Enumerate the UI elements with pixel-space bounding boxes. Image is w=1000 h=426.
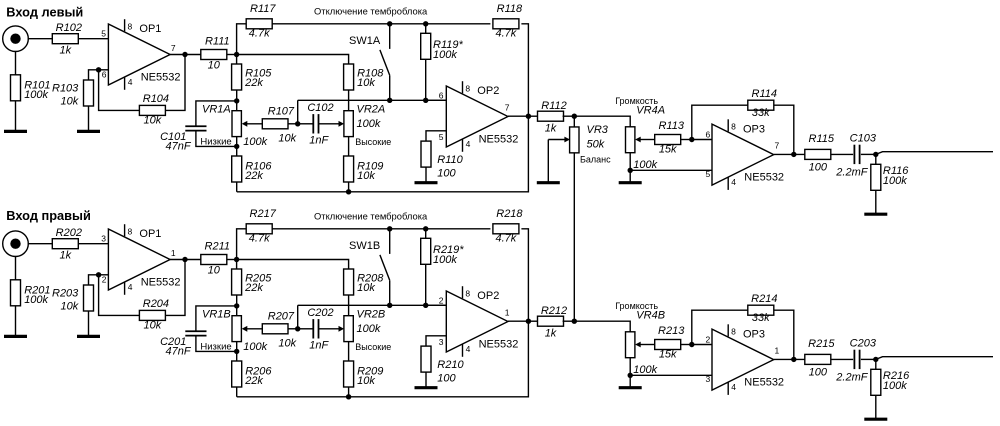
- resistor R214: [748, 293, 778, 324]
- svg-text:1nF: 1nF: [309, 340, 329, 352]
- wire VR3 wiper to ground: [547, 140, 549, 183]
- svg-text:100: 100: [437, 167, 456, 179]
- svg-text:1k: 1k: [59, 249, 71, 261]
- op-amp OP2 NE5532: [446, 81, 518, 152]
- resistor R215: [805, 338, 836, 379]
- wire: [99, 274, 109, 276]
- wire VR1 top to C101: [196, 306, 237, 331]
- wire: [89, 70, 97, 80]
- ground: [864, 418, 887, 421]
- node R209 to feedback bus: [346, 394, 351, 399]
- wire: [425, 167, 427, 183]
- switch SW1A: [380, 24, 390, 101]
- resistor R209: [344, 361, 384, 387]
- svg-text:R212: R212: [541, 305, 567, 317]
- svg-text:100k: 100k: [24, 89, 48, 101]
- capacitor C203 2.2mF: [854, 350, 859, 369]
- svg-text:1k: 1k: [59, 44, 71, 56]
- wire: [99, 69, 109, 71]
- svg-text:Низкие: Низкие: [200, 136, 231, 147]
- svg-text:4.7k: 4.7k: [249, 232, 270, 244]
- resistor R114: [748, 88, 777, 119]
- svg-text:OP1: OP1: [139, 228, 161, 240]
- svg-text:OP2: OP2: [477, 290, 499, 302]
- wiper of VR4A: [640, 139, 655, 141]
- svg-text:4: 4: [731, 382, 736, 392]
- svg-text:VR2B: VR2B: [357, 309, 386, 321]
- svg-text:22k: 22k: [244, 77, 263, 89]
- wire: [28, 38, 53, 40]
- node VR1A bottom: [234, 144, 239, 149]
- wire to volume pot: [574, 321, 630, 332]
- node SW1B bottom contact: [387, 303, 392, 308]
- svg-text:5: 5: [101, 28, 106, 38]
- wire feedback bottom bus: [237, 116, 529, 192]
- ground: [619, 386, 642, 389]
- wiper of VR2A: [319, 123, 340, 125]
- svg-text:5: 5: [439, 132, 444, 142]
- wire: [99, 70, 140, 111]
- wire tone-bypass bus: [272, 228, 490, 230]
- node R109 to feedback bus: [346, 189, 351, 194]
- wire: [348, 295, 350, 316]
- wiper of VR1B: [246, 328, 262, 330]
- ground VR3 wiper: [537, 181, 560, 184]
- svg-text:R218: R218: [496, 208, 523, 220]
- svg-text:15k: 15k: [659, 349, 677, 361]
- svg-text:3: 3: [101, 233, 106, 243]
- wire: [528, 320, 538, 322]
- svg-text:6: 6: [102, 70, 107, 80]
- resistor R119*: [421, 33, 464, 61]
- ground: [415, 181, 438, 184]
- wire node A to R108: [237, 55, 349, 65]
- svg-text:6: 6: [706, 129, 711, 139]
- wire: [236, 90, 238, 101]
- svg-text:10: 10: [208, 60, 221, 72]
- wire: [875, 395, 877, 419]
- wire output line: [876, 152, 993, 155]
- wire OP2 noninv input: [426, 336, 446, 346]
- svg-text:2.2mF: 2.2mF: [835, 166, 868, 178]
- svg-text:VR3: VR3: [587, 124, 609, 136]
- wire C101 to VR1 bottom: [196, 336, 237, 351]
- svg-text:VR2A: VR2A: [357, 104, 386, 116]
- wire: [426, 304, 447, 306]
- svg-text:Отключение темброблока: Отключение темброблока: [314, 5, 428, 16]
- wire: [236, 146, 238, 156]
- node C R107-C102 junction: [295, 326, 300, 331]
- svg-text:NE5532: NE5532: [141, 72, 181, 84]
- wire: [425, 264, 427, 305]
- svg-text:R215: R215: [808, 338, 835, 350]
- wire: [297, 100, 299, 124]
- wire: [288, 123, 297, 125]
- wire: [89, 275, 97, 285]
- node OP1 output: [182, 52, 187, 57]
- op-amp OP2 NE5532: [446, 286, 518, 357]
- svg-text:SW1B: SW1B: [349, 240, 380, 252]
- svg-text:R207: R207: [268, 311, 295, 323]
- wire: [629, 358, 631, 376]
- resistor R106: [232, 156, 273, 182]
- resistor R111: [201, 36, 230, 72]
- svg-text:100k: 100k: [433, 49, 457, 61]
- node R212 to balance: [572, 319, 577, 324]
- resistor R107: [262, 106, 296, 145]
- wire: [78, 243, 108, 245]
- wire: [521, 229, 528, 321]
- svg-text:100k: 100k: [243, 341, 267, 353]
- node VR1B bottom: [234, 349, 239, 354]
- svg-text:100k: 100k: [24, 294, 48, 306]
- wire: [348, 182, 350, 192]
- resistor R109: [344, 156, 384, 182]
- svg-text:R204: R204: [143, 298, 169, 310]
- wire: [28, 243, 53, 245]
- svg-text:R113: R113: [658, 120, 684, 132]
- wire output line: [876, 357, 993, 360]
- resistor R104: [139, 93, 169, 127]
- wire: [774, 153, 805, 155]
- wire VR4 bottom to OP3: [630, 169, 712, 171]
- svg-text:VR4B: VR4B: [636, 309, 665, 321]
- resistor R105: [232, 64, 273, 90]
- svg-text:10k: 10k: [61, 96, 79, 108]
- svg-text:R102: R102: [56, 22, 82, 34]
- wire: [681, 139, 692, 141]
- node A input of tone block: [234, 52, 239, 57]
- svg-text:100k: 100k: [243, 136, 267, 148]
- svg-text:100k: 100k: [433, 254, 457, 266]
- wire: [521, 24, 528, 116]
- resistor R116: [871, 164, 909, 190]
- resistor R207: [262, 311, 296, 350]
- svg-text:10k: 10k: [61, 301, 79, 313]
- wire: [692, 139, 712, 141]
- node OP2 output: [526, 114, 531, 119]
- connector J2: [3, 231, 29, 257]
- wire: [861, 153, 876, 155]
- node SW1B top contact: [387, 226, 392, 231]
- node VR1B top: [234, 303, 239, 308]
- svg-text:VR1A: VR1A: [202, 104, 231, 116]
- op-amp OP3 NE5532: [712, 324, 784, 395]
- wire: [236, 137, 238, 147]
- potentiometer VR4A 100k volume: [626, 127, 635, 153]
- resistor R108: [344, 64, 385, 90]
- potentiometer VR4B 100k volume: [626, 332, 635, 358]
- wire feedback bottom bus: [237, 321, 529, 397]
- ground: [77, 130, 100, 133]
- svg-text:8: 8: [128, 226, 133, 236]
- node output: [873, 152, 878, 157]
- wire: [170, 54, 200, 56]
- capacitor C201 47nF: [185, 331, 206, 335]
- svg-text:OP1: OP1: [139, 23, 161, 35]
- svg-text:R103: R103: [52, 83, 79, 95]
- svg-text:8: 8: [465, 83, 470, 93]
- resistor R205: [232, 269, 273, 295]
- resistor R103: [52, 80, 93, 108]
- svg-text:5: 5: [706, 169, 711, 179]
- node OP2 output: [526, 319, 531, 324]
- ground: [415, 386, 438, 389]
- svg-text:10k: 10k: [144, 320, 162, 332]
- capacitor C202 1nF: [313, 319, 318, 338]
- resistor R202: [52, 227, 82, 261]
- wire to VR3 top: [573, 116, 575, 127]
- svg-text:4: 4: [128, 77, 133, 87]
- ground: [77, 335, 100, 338]
- svg-text:1nF: 1nF: [309, 135, 329, 147]
- svg-text:100k: 100k: [633, 364, 657, 376]
- svg-text:2: 2: [102, 275, 107, 285]
- svg-text:8: 8: [731, 122, 736, 132]
- svg-text:6: 6: [439, 90, 444, 100]
- capacitor C103 2.2mF: [854, 145, 859, 164]
- resistor R212: [538, 305, 568, 340]
- svg-text:C203: C203: [850, 337, 877, 349]
- op-amp OP1 NE5532: [108, 19, 180, 90]
- svg-text:100k: 100k: [883, 175, 907, 187]
- wire: [298, 123, 313, 125]
- resistor R219*: [421, 238, 465, 266]
- wire: [227, 54, 237, 56]
- node VR4B bottom: [628, 373, 633, 378]
- svg-text:NE5532: NE5532: [479, 339, 519, 351]
- svg-text:R104: R104: [143, 93, 169, 105]
- resistor R216: [871, 369, 910, 395]
- svg-text:50k: 50k: [587, 138, 605, 150]
- wire to R114: [692, 105, 748, 139]
- svg-text:4: 4: [731, 177, 736, 187]
- wire: [629, 153, 631, 171]
- svg-text:47nF: 47nF: [166, 140, 192, 152]
- svg-text:R107: R107: [268, 106, 295, 118]
- ground: [4, 130, 27, 133]
- svg-text:OP3: OP3: [743, 123, 765, 135]
- wire: [831, 153, 853, 155]
- svg-text:10k: 10k: [144, 115, 162, 127]
- wire: [236, 306, 238, 316]
- svg-text:1: 1: [171, 248, 176, 258]
- svg-text:Баланс: Баланс: [580, 154, 611, 164]
- wire OP2 noninv input: [426, 131, 446, 141]
- node R219* bottom: [423, 303, 428, 308]
- wire: [236, 351, 238, 361]
- svg-text:8: 8: [465, 288, 470, 298]
- svg-text:C103: C103: [850, 132, 877, 144]
- ground: [4, 335, 27, 338]
- wire: [563, 115, 575, 117]
- svg-text:100k: 100k: [633, 159, 657, 171]
- wire: [236, 101, 238, 111]
- svg-text:7: 7: [505, 102, 510, 112]
- node OP1 inverting input: [96, 67, 101, 72]
- svg-text:10k: 10k: [357, 77, 375, 89]
- wire: [875, 190, 877, 214]
- resistor R218: [493, 208, 524, 245]
- wire: [15, 101, 17, 132]
- svg-text:100k: 100k: [357, 323, 381, 335]
- wire: [15, 306, 17, 337]
- svg-text:R117: R117: [250, 3, 276, 15]
- wire to volume pot: [574, 116, 630, 127]
- svg-text:Низкие: Низкие: [200, 341, 231, 352]
- switch SW1B: [380, 229, 390, 305]
- wiper of VR2B: [319, 328, 340, 330]
- svg-text:33k: 33k: [752, 107, 770, 119]
- wire: [681, 344, 692, 346]
- svg-text:VR4A: VR4A: [636, 104, 665, 116]
- svg-text:OP3: OP3: [743, 328, 765, 340]
- wire: [831, 358, 853, 360]
- svg-text:10k: 10k: [357, 282, 375, 294]
- svg-text:100: 100: [437, 372, 456, 384]
- wire: [425, 372, 427, 388]
- svg-text:R114: R114: [752, 88, 777, 100]
- wire: [288, 328, 297, 330]
- node R219* top: [423, 226, 428, 231]
- resistor R206: [232, 361, 273, 387]
- potentiometer VR2A 100k treble: [344, 111, 353, 137]
- wire: [236, 387, 238, 397]
- svg-text:Отключение темброблока: Отключение темброблока: [314, 210, 428, 221]
- wire: [563, 320, 575, 322]
- resistor R201: [11, 280, 51, 306]
- svg-text:4.7k: 4.7k: [496, 27, 517, 39]
- wire: [426, 99, 447, 101]
- node C R107-C102 junction: [295, 121, 300, 126]
- resistor R112: [538, 100, 567, 135]
- wire: [88, 311, 90, 336]
- svg-text:R211: R211: [205, 241, 230, 253]
- resistor R204: [139, 298, 169, 332]
- ground: [864, 213, 887, 216]
- wire: [166, 55, 185, 111]
- wire: [15, 51, 17, 75]
- node R119* top: [423, 21, 428, 26]
- resistor R102: [52, 22, 82, 56]
- resistor R213: [655, 325, 686, 360]
- wire: [508, 115, 528, 117]
- resistor R208: [344, 269, 385, 295]
- svg-text:Вход правый: Вход правый: [6, 208, 91, 223]
- wire tone-bypass bus: [272, 23, 490, 25]
- wire: [348, 387, 350, 397]
- svg-text:7: 7: [775, 140, 780, 150]
- svg-text:100: 100: [809, 162, 828, 174]
- wire: [236, 342, 238, 352]
- wire VR1 top to C101: [196, 101, 237, 126]
- svg-text:1k: 1k: [545, 328, 557, 340]
- svg-text:R112: R112: [541, 100, 566, 112]
- wire: [297, 305, 299, 329]
- svg-text:VR1B: VR1B: [202, 309, 231, 321]
- wire to OP2 input bus: [298, 99, 447, 101]
- svg-text:OP2: OP2: [477, 85, 499, 97]
- svg-text:NE5532: NE5532: [479, 134, 519, 146]
- svg-text:100k: 100k: [357, 118, 381, 130]
- wire VR4 bottom to OP3: [630, 374, 712, 376]
- potentiometer VR1B 100k bass: [232, 316, 241, 342]
- wire: [774, 358, 805, 360]
- wire: [15, 256, 17, 280]
- wire: [170, 259, 200, 261]
- node VR1A top: [234, 98, 239, 103]
- svg-text:22k: 22k: [244, 282, 263, 294]
- resistor R101: [11, 75, 51, 101]
- node SW1A top contact: [387, 21, 392, 26]
- svg-text:R210: R210: [437, 359, 464, 371]
- svg-text:NE5532: NE5532: [744, 377, 784, 389]
- resistor R211: [201, 241, 230, 277]
- svg-text:22k: 22k: [244, 375, 263, 387]
- svg-text:22k: 22k: [244, 170, 263, 182]
- svg-text:4: 4: [466, 139, 471, 149]
- potentiometer VR1A 100k bass: [232, 111, 241, 137]
- svg-text:8: 8: [128, 21, 133, 31]
- wire R114 to output: [774, 310, 794, 359]
- svg-text:3: 3: [439, 337, 444, 347]
- svg-text:Высокие: Высокие: [355, 137, 391, 147]
- ground: [619, 181, 642, 184]
- op-amp OP3 NE5532: [712, 119, 784, 190]
- node R213 OP3 input: [689, 342, 694, 347]
- op-amp OP1 NE5532: [108, 224, 180, 295]
- potentiometer VR2B 100k treble: [344, 316, 353, 342]
- wiper of VR4B: [640, 344, 655, 346]
- svg-text:10k: 10k: [278, 133, 296, 145]
- wiper of VR1A: [246, 123, 262, 125]
- wire: [861, 358, 876, 360]
- svg-text:3: 3: [706, 374, 711, 384]
- svg-text:10: 10: [208, 265, 221, 277]
- node OP1 inverting input: [96, 272, 101, 277]
- wire R114 to output: [774, 105, 794, 154]
- svg-text:R115: R115: [809, 133, 835, 145]
- svg-text:R202: R202: [56, 227, 82, 239]
- svg-text:100k: 100k: [883, 380, 907, 392]
- wire: [237, 229, 247, 260]
- svg-text:8: 8: [731, 327, 736, 337]
- wire: [236, 182, 238, 192]
- capacitor C102 1nF: [313, 114, 318, 133]
- wire: [692, 344, 712, 346]
- potentiometer VR3 50k balance: [570, 127, 579, 153]
- svg-text:4: 4: [128, 282, 133, 292]
- wire: [508, 320, 528, 322]
- svg-text:NE5532: NE5532: [141, 277, 181, 289]
- wire: [348, 342, 350, 361]
- svg-text:10k: 10k: [357, 375, 375, 387]
- node SW1A bottom contact: [387, 98, 392, 103]
- wire: [99, 275, 140, 316]
- svg-text:R118: R118: [497, 3, 523, 15]
- svg-text:C102: C102: [307, 102, 333, 114]
- resistor R117: [246, 3, 276, 40]
- svg-text:4.7k: 4.7k: [496, 232, 517, 244]
- wiper of VR3: [548, 139, 565, 141]
- node R113 OP3 input: [689, 137, 694, 142]
- node A input of tone block: [234, 257, 239, 262]
- wire: [425, 229, 427, 239]
- wire: [528, 115, 538, 117]
- svg-text:47nF: 47nF: [166, 345, 192, 357]
- wire: [227, 259, 237, 261]
- svg-text:4.7k: 4.7k: [249, 27, 270, 39]
